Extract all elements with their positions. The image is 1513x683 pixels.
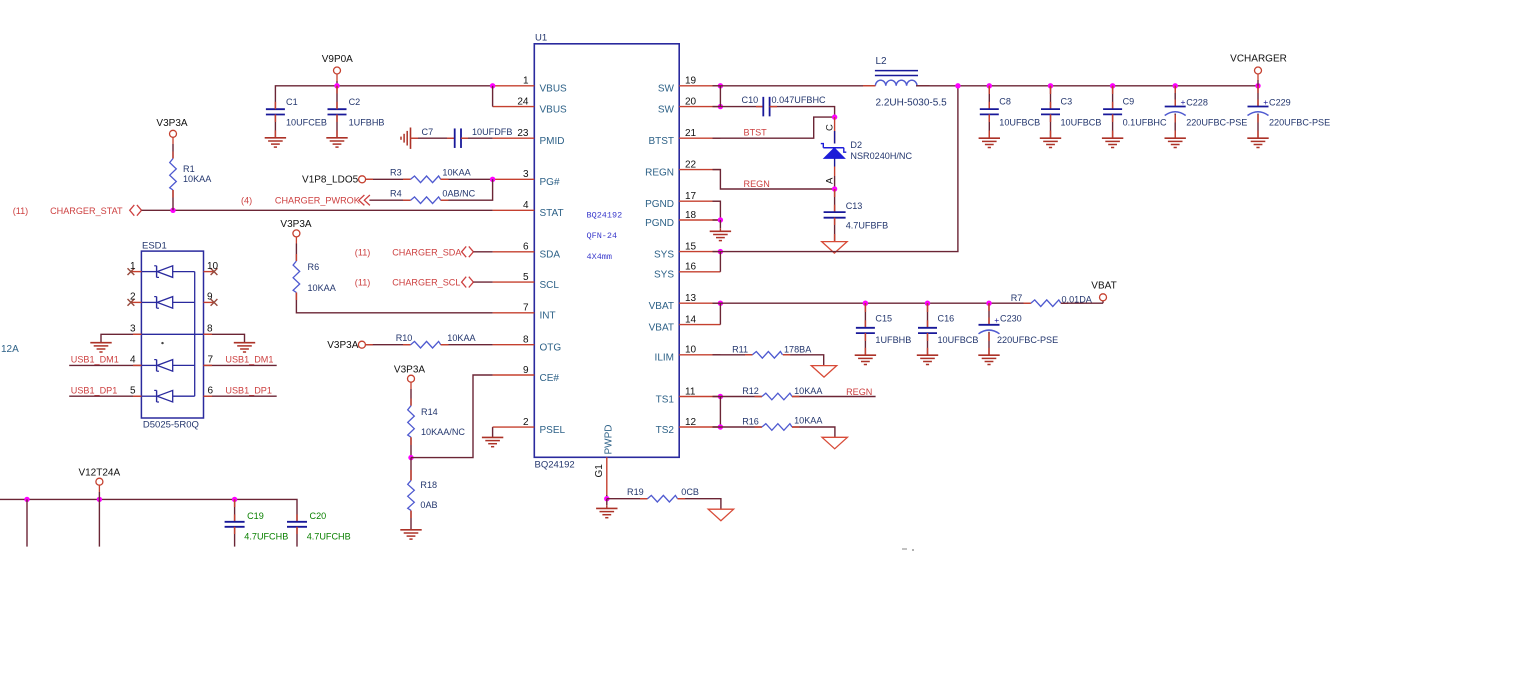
svg-text:(4): (4) <box>241 196 252 206</box>
svg-text:CHARGER_PWROK: CHARGER_PWROK <box>275 196 360 206</box>
power symbol V1P8_LDO5 <box>302 175 366 186</box>
svg-text:R18: R18 <box>420 480 437 490</box>
svg-text:R10: R10 <box>396 333 413 343</box>
net label CHARGER_SCL <box>355 277 474 288</box>
net label BTST <box>744 127 768 137</box>
wire V3P3A to R10 <box>366 344 411 346</box>
svg-text:USB1_DM1: USB1_DM1 <box>225 355 273 365</box>
pin 1 VBUS (left) <box>493 76 567 95</box>
svg-text:D2: D2 <box>850 140 862 150</box>
capacitor C228 (polarized) <box>1165 86 1248 138</box>
pin 19 SW (right) <box>658 76 721 95</box>
svg-text:CHARGER_SDA: CHARGER_SDA <box>392 247 462 257</box>
svg-text:2: 2 <box>523 417 529 428</box>
junction VBAT/C16 <box>925 301 930 306</box>
capacitor C8 <box>980 86 1040 138</box>
svg-text:0AB/NC: 0AB/NC <box>442 188 475 198</box>
junction bus/C228 <box>1173 83 1178 88</box>
capacitor C10 <box>742 95 827 116</box>
ground ESD1 pin3 <box>90 343 111 352</box>
pin 17 PGND (right) <box>645 191 720 210</box>
svg-text:1UFBHB: 1UFBHB <box>875 335 911 345</box>
ESD1 origin dot <box>161 342 163 344</box>
svg-text:5: 5 <box>523 272 529 283</box>
pin 21 BTST (right) <box>648 128 720 147</box>
wire SYS to top bus <box>713 86 958 252</box>
svg-text:V9P0A: V9P0A <box>322 54 353 65</box>
svg-text:0AB: 0AB <box>420 500 437 510</box>
svg-text:V3P3A: V3P3A <box>156 118 187 129</box>
ESD1 diode row4 <box>141 360 194 372</box>
svg-text:1UFBHB: 1UFBHB <box>349 118 385 128</box>
net label CHARGER_SDA <box>355 246 474 257</box>
wire pin24 link <box>492 86 494 107</box>
svg-text:C10: C10 <box>742 95 759 105</box>
pin 10 ILIM (right) <box>655 345 721 364</box>
svg-text:178BA: 178BA <box>784 344 812 354</box>
wire D2 anode <box>834 158 836 189</box>
svg-text:1: 1 <box>130 261 136 272</box>
svg-text:R12: R12 <box>742 386 759 396</box>
wire REGN pin22 to anode <box>713 170 835 189</box>
ESD1 diode row1 <box>141 266 194 278</box>
svg-text:CHARGER_STAT: CHARGER_STAT <box>50 206 123 216</box>
svg-text:6: 6 <box>523 242 529 253</box>
svg-text:VBUS: VBUS <box>540 84 568 95</box>
wire PWROK to R4 <box>369 199 410 201</box>
net label REGN <box>744 179 770 189</box>
svg-text:12A: 12A <box>1 344 19 355</box>
pin 24 VBUS (left) <box>493 96 567 115</box>
resistor R1 <box>170 159 213 191</box>
svg-text:C20: C20 <box>310 511 327 521</box>
svg-text:4.7UFBFB: 4.7UFBFB <box>846 220 888 230</box>
capacitor C7 <box>422 127 513 148</box>
svg-text:ILIM: ILIM <box>655 353 674 364</box>
svg-text:V1P8_LDO5: V1P8_LDO5 <box>302 175 359 186</box>
pin 3 PG# (left) <box>493 169 560 188</box>
svg-text:5: 5 <box>130 385 136 396</box>
junction BTST/D2 cathode <box>832 114 837 119</box>
pin 14 VBAT (right) <box>649 314 721 333</box>
capacitor C2 <box>328 86 385 138</box>
resistor R12 <box>742 386 823 400</box>
svg-text:1: 1 <box>523 76 529 87</box>
wire C7 left <box>411 137 455 139</box>
svg-text:VBAT: VBAT <box>1091 281 1116 292</box>
svg-text:REGN: REGN <box>744 179 770 189</box>
wire G1 stub <box>606 495 608 499</box>
svg-text:R7: R7 <box>1011 293 1023 303</box>
capacitor C15 <box>856 303 911 355</box>
power symbol VCHARGER <box>1230 54 1287 86</box>
pin 6 SDA (left) <box>493 242 561 261</box>
inductor L2 <box>863 56 947 109</box>
wire V1P8_LDO5 to R3 <box>366 178 411 180</box>
svg-text:10UFBCB: 10UFBCB <box>999 117 1040 127</box>
svg-text:NSR0240H/NC: NSR0240H/NC <box>850 151 912 161</box>
net label CHARGER_STAT <box>13 205 142 216</box>
ground C15 <box>855 355 876 364</box>
ESD1 pin 1 (NC) <box>128 261 142 275</box>
wire PSEL to ground <box>492 427 494 437</box>
svg-text:21: 21 <box>685 128 697 139</box>
svg-text:+: + <box>1263 97 1268 107</box>
resistor R4 <box>390 188 476 203</box>
pin 4 STAT (left) <box>493 200 564 219</box>
svg-text:0.047UFBHC: 0.047UFBHC <box>772 95 827 105</box>
svg-text:C228: C228 <box>1186 97 1208 107</box>
wire VBAT pin14 link <box>719 303 721 324</box>
ground C228 <box>1165 138 1186 147</box>
junction SYS pin15 <box>718 249 723 254</box>
ESD1 pin 10 (NC) <box>204 261 219 275</box>
wire R16 to ground <box>792 427 835 437</box>
svg-text:3: 3 <box>130 324 136 335</box>
svg-text:14: 14 <box>685 314 697 325</box>
svg-text:12: 12 <box>685 417 697 428</box>
wire SYS pin16 link <box>719 252 721 272</box>
svg-text:CHARGER_SCL: CHARGER_SCL <box>392 278 460 288</box>
svg-text:QFN-24: QFN-24 <box>587 231 618 241</box>
svg-text:22: 22 <box>685 159 697 170</box>
net label 12A (cut off) <box>1 344 19 355</box>
junction VBAT/C15 <box>863 301 868 306</box>
resistor R6 <box>293 261 337 293</box>
svg-text:BTST: BTST <box>648 136 674 147</box>
svg-text:0CB: 0CB <box>681 487 699 497</box>
ground G1 <box>596 499 617 518</box>
resistor R11 <box>732 344 812 358</box>
junction bus/C9 <box>1110 83 1115 88</box>
svg-text:SYS: SYS <box>654 270 674 281</box>
net label USB1_DM1 (right) <box>208 355 274 366</box>
resistor R16 <box>742 416 823 431</box>
ESD1 passthrough row3 <box>141 333 203 335</box>
svg-text:V3P3A: V3P3A <box>394 364 425 375</box>
net label USB1_DM1 (left) <box>71 355 136 366</box>
svg-text:9: 9 <box>523 365 529 376</box>
svg-text:C230: C230 <box>1000 313 1022 323</box>
junction G1 node <box>604 496 609 501</box>
svg-text:R14: R14 <box>421 407 438 417</box>
ESD array ESD1 body <box>141 240 203 430</box>
wire SDA <box>473 251 492 253</box>
junction bus drop1 <box>24 497 29 502</box>
svg-text:10KAA: 10KAA <box>794 416 823 426</box>
svg-text:7: 7 <box>523 303 529 314</box>
wire R6 to INT pin7 <box>296 293 492 313</box>
ground (triangle) R16 <box>822 437 847 449</box>
svg-text:16: 16 <box>685 262 697 273</box>
wire TS1 to R12 <box>713 396 762 398</box>
pin 5 SCL (left) <box>493 272 560 291</box>
pin 20 SW (right) <box>658 96 721 115</box>
pin 23 PMID (left) <box>493 128 565 147</box>
capacitor C9 <box>1103 86 1167 138</box>
ground C1 <box>265 138 286 147</box>
node label C (cathode) <box>825 124 836 131</box>
ground ESD1 pin8 <box>234 343 255 352</box>
svg-text:R4: R4 <box>390 188 402 198</box>
svg-text:(11): (11) <box>13 206 29 216</box>
svg-text:C8: C8 <box>999 97 1011 107</box>
svg-text:9: 9 <box>207 292 213 303</box>
ground C229 <box>1247 138 1268 147</box>
capacitor C16 <box>918 303 978 355</box>
wire TS2 to R16 <box>713 426 762 428</box>
wire ILIM to R11 <box>713 354 753 356</box>
svg-text:C15: C15 <box>875 313 892 323</box>
svg-text:4: 4 <box>130 355 136 366</box>
ground R18 <box>400 530 421 539</box>
svg-text:PG#: PG# <box>540 177 560 188</box>
svg-text:SCL: SCL <box>540 280 560 291</box>
svg-text:BQ24192: BQ24192 <box>587 210 623 220</box>
wire C13 to ground <box>834 218 836 242</box>
pin 11 TS1 (right) <box>656 386 721 405</box>
svg-text:REGN: REGN <box>846 387 872 397</box>
svg-text:23: 23 <box>517 128 529 139</box>
svg-text:OTG: OTG <box>540 343 562 354</box>
svg-text:220UFBC-PSE: 220UFBC-PSE <box>1186 117 1247 127</box>
svg-text:TS2: TS2 <box>656 425 675 436</box>
resistor R3 <box>390 168 472 183</box>
svg-text:(11): (11) <box>355 278 371 288</box>
junction bus/C3 <box>1048 83 1053 88</box>
wire C10 to BTST node <box>770 107 835 118</box>
svg-text:10KAA/NC: 10KAA/NC <box>421 427 465 437</box>
pin 13 VBAT (right) <box>649 293 721 312</box>
svg-text:R19: R19 <box>627 487 644 497</box>
wire USB1_DP1 right <box>204 395 277 397</box>
ESD1 internal rail <box>194 272 196 397</box>
net label USB1_DP1 (right) <box>208 385 272 396</box>
svg-text:10: 10 <box>207 261 219 272</box>
svg-text:C1: C1 <box>286 97 298 107</box>
svg-text:10UFDFB: 10UFDFB <box>472 127 512 137</box>
pin 2 PSEL (left) <box>493 417 566 436</box>
junction TS1 <box>718 394 723 399</box>
svg-text:D5025-5R0Q: D5025-5R0Q <box>143 420 199 431</box>
capacitor C13 <box>824 201 889 230</box>
wire SW to L2 <box>713 85 876 87</box>
svg-text:VBAT: VBAT <box>649 323 674 334</box>
junction PGND <box>718 217 723 222</box>
ground C230 <box>978 355 999 364</box>
svg-text:SW: SW <box>658 84 675 95</box>
junction VBAT pin13 <box>718 301 723 306</box>
ground PGND <box>710 220 731 241</box>
ESD1 pin 8 to ground <box>204 324 245 343</box>
power symbol V3P3A (R6) <box>280 219 311 261</box>
net label REGN (TS1) <box>846 387 872 397</box>
diode D2 NSR0240H (schottky) <box>821 140 913 161</box>
ESD1 pin 3 to ground <box>101 324 141 343</box>
wire anode to C13 <box>834 189 836 212</box>
svg-text:+: + <box>1181 97 1186 107</box>
wire L2 to VCHARGER bus <box>916 85 1258 87</box>
svg-text:13: 13 <box>685 293 697 304</box>
capacitor C230 (polarized) <box>979 303 1059 355</box>
net label CHARGER_PWROK <box>241 195 370 206</box>
svg-text:ESD1: ESD1 <box>142 240 167 251</box>
svg-text:10KAA: 10KAA <box>183 174 212 184</box>
svg-text:PMID: PMID <box>540 136 565 147</box>
svg-text:10: 10 <box>685 345 697 356</box>
svg-text:V3P3A: V3P3A <box>327 340 358 351</box>
svg-text:STAT: STAT <box>540 208 564 219</box>
svg-text:REGN: REGN <box>645 168 674 179</box>
svg-text:R16: R16 <box>742 417 759 427</box>
junction TS2 <box>718 424 723 429</box>
svg-text:USB1_DP1: USB1_DP1 <box>225 385 272 395</box>
junction C19 <box>232 497 237 502</box>
pin 18 PGND (right) <box>645 210 720 229</box>
wire SCL <box>473 281 492 283</box>
wire USB1_DM1 left <box>69 364 141 366</box>
ground C2 <box>326 138 347 147</box>
capacitor C1 <box>266 97 327 138</box>
svg-text:PSEL: PSEL <box>540 425 566 436</box>
svg-text:SYS: SYS <box>654 250 674 261</box>
wire VBAT rail <box>713 302 1031 304</box>
pin G1 PWPD (bottom) <box>594 425 615 499</box>
svg-text:10KAA: 10KAA <box>308 283 337 293</box>
wire V9P0A bus <box>275 86 492 109</box>
ground C3 <box>1040 138 1061 147</box>
wire R18 to ground <box>410 511 412 530</box>
ground (triangle) R19 <box>708 509 733 521</box>
power symbol V12T24A <box>78 467 120 499</box>
svg-text:4.7UFCHB: 4.7UFCHB <box>244 532 288 542</box>
svg-text:(11): (11) <box>355 247 371 257</box>
svg-text:10UFCEB: 10UFCEB <box>286 118 327 128</box>
svg-text:V3P3A: V3P3A <box>280 219 311 230</box>
svg-text:+: + <box>994 315 999 325</box>
wire drop1 <box>26 499 28 546</box>
svg-text:C2: C2 <box>349 97 361 107</box>
junction SYS/top bus <box>955 83 960 88</box>
junction D2 anode/C13 <box>832 186 837 191</box>
svg-text:V12T24A: V12T24A <box>78 467 120 478</box>
wire pin20 to C10 <box>713 106 764 108</box>
wire PGND pin17 <box>713 201 721 220</box>
wire USB1_DP1 left <box>69 395 141 397</box>
svg-text:INT: INT <box>540 311 556 322</box>
svg-text:7: 7 <box>208 355 214 366</box>
junction bus/C229 <box>1255 83 1260 88</box>
junction SW pin20 <box>718 104 723 109</box>
svg-text:6: 6 <box>208 385 214 396</box>
IC U1 internal part text <box>587 210 623 262</box>
wire R19 to ground <box>678 499 721 510</box>
IC U1 BQ24192 body <box>534 33 679 458</box>
junction R1/STAT node <box>170 208 175 213</box>
wire R7 to VBAT terminal <box>1061 301 1103 303</box>
svg-text:SDA: SDA <box>540 250 561 261</box>
pin 12 TS2 (right) <box>656 417 721 436</box>
stray mark <box>902 549 914 551</box>
svg-text:10UFBCB: 10UFBCB <box>938 335 979 345</box>
wire R11 to ground <box>783 355 824 366</box>
svg-text:BQ24192: BQ24192 <box>535 460 575 471</box>
capacitor C229 (polarized) <box>1248 86 1331 138</box>
svg-text:VBUS: VBUS <box>540 105 568 116</box>
ground (triangle) R11 <box>811 366 836 378</box>
wire R12 to REGN <box>792 396 876 398</box>
capacitor C20 <box>287 511 351 547</box>
junction SW pin19 <box>718 83 723 88</box>
svg-text:10KAA: 10KAA <box>442 168 471 178</box>
power symbol V3P3A (R10) <box>327 340 365 351</box>
svg-text:USB1_DM1: USB1_DM1 <box>71 355 119 365</box>
svg-text:2: 2 <box>130 292 136 303</box>
resistor R18 <box>408 458 438 511</box>
svg-text:PGND: PGND <box>645 199 674 210</box>
svg-text:C3: C3 <box>1061 97 1073 107</box>
pin 8 OTG (left) <box>493 335 562 354</box>
svg-text:2.2UH-5030-5.5: 2.2UH-5030-5.5 <box>876 98 948 109</box>
svg-text:C229: C229 <box>1269 97 1291 107</box>
ground C8 <box>979 138 1000 147</box>
svg-text:A: A <box>825 177 836 184</box>
svg-text:10KAA: 10KAA <box>447 333 476 343</box>
svg-text:220UFBC-PSE: 220UFBC-PSE <box>1269 117 1330 127</box>
svg-text:C19: C19 <box>247 511 264 521</box>
svg-text:R6: R6 <box>308 262 320 272</box>
svg-text:20: 20 <box>685 96 697 107</box>
junction pin1 node <box>490 83 495 88</box>
power symbol V3P3A (R1) <box>156 118 187 159</box>
ground C16 <box>917 355 938 364</box>
wire USB1_DM1 right <box>204 364 277 366</box>
ESD1 diode row2 <box>141 297 194 309</box>
ground (triangle) C13 <box>822 242 847 254</box>
wire R1 to node <box>172 190 174 210</box>
svg-text:PWPD: PWPD <box>604 425 615 455</box>
svg-text:17: 17 <box>685 191 697 202</box>
resistor R14 <box>408 406 466 437</box>
svg-text:0.1UFBHC: 0.1UFBHC <box>1123 117 1167 127</box>
svg-text:C7: C7 <box>422 127 434 137</box>
capacitor C3 <box>1041 86 1101 138</box>
resistor R10 <box>396 333 477 348</box>
svg-text:8: 8 <box>207 324 213 335</box>
svg-text:8: 8 <box>523 335 529 346</box>
wire TS1-TS2 link <box>719 397 721 428</box>
svg-text:15: 15 <box>685 241 697 252</box>
svg-text:U1: U1 <box>535 33 547 44</box>
svg-text:19: 19 <box>685 76 697 87</box>
junction pin3 node <box>490 177 495 182</box>
ESD1 diode row5 <box>141 390 194 402</box>
svg-text:10KAA: 10KAA <box>794 386 823 396</box>
svg-text:4: 4 <box>523 200 529 211</box>
svg-text:VCHARGER: VCHARGER <box>1230 54 1287 65</box>
pin 15 SYS (right) <box>654 241 720 260</box>
wire PGND pin18 <box>713 219 721 221</box>
svg-text:C9: C9 <box>1123 97 1135 107</box>
ground PSEL <box>482 437 503 446</box>
junction VBAT/C230 <box>986 301 991 306</box>
ESD1 pin 9 (NC) <box>204 292 218 306</box>
wire C7 to PMID <box>461 137 493 139</box>
svg-text:TS1: TS1 <box>656 394 675 405</box>
svg-text:220UFBC-PSE: 220UFBC-PSE <box>997 335 1058 345</box>
junction R14/R18 node <box>408 455 413 460</box>
svg-text:C: C <box>825 124 836 131</box>
